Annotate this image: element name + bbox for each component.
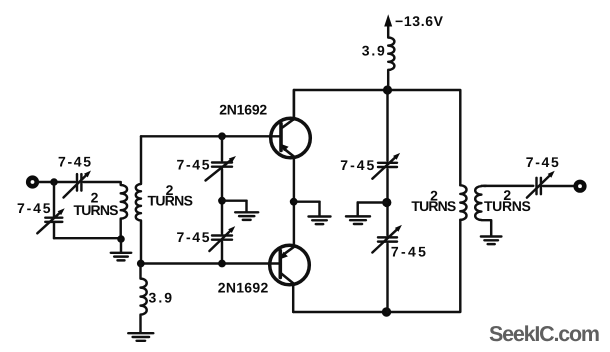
- input terminal J1: [26, 175, 39, 188]
- ground G5 tank: [346, 203, 387, 225]
- capacitor C5 7-45 plates: [378, 163, 397, 167]
- svg-text:7-45: 7-45: [340, 157, 374, 173]
- power arrow -13.6V: [384, 14, 392, 37]
- node top bias junction: [218, 132, 226, 140]
- node bottom rail junction: [382, 307, 391, 316]
- inductor L4 2 TURNS secondary: [475, 186, 491, 236]
- svg-text:2N1692: 2N1692: [219, 102, 267, 118]
- svg-text:TURNS: TURNS: [74, 202, 119, 218]
- wire cap to output terminal: [543, 185, 574, 187]
- node L1 bottom junction: [117, 235, 125, 243]
- capacitor C2 arrow: [37, 208, 64, 233]
- inductor L3 2 TURNS primary: [460, 185, 466, 220]
- node mid bias junction: [218, 197, 226, 205]
- ground G3 emitters: [294, 202, 331, 224]
- capacitor C4 arrow: [209, 226, 235, 251]
- wire Q2 collector down: [292, 284, 294, 313]
- svg-text:TURNS: TURNS: [147, 192, 193, 208]
- svg-text:7-45: 7-45: [526, 154, 559, 170]
- wire bottom bias line: [141, 262, 281, 264]
- capacitor C4 7-45 plates: [212, 236, 232, 240]
- node bias bottom junction: [218, 260, 226, 268]
- svg-text:7-45: 7-45: [17, 200, 51, 216]
- inductor L1 2 TURNS left loop: [121, 182, 127, 239]
- capacitor C2 7-45 shunt plates: [45, 218, 62, 222]
- wire left shunt vertical: [53, 182, 55, 217]
- capacitor C6 7-45 plates: [378, 237, 397, 241]
- capacitor C1 7-45 series plates: [77, 174, 81, 191]
- svg-text:TURNS: TURNS: [411, 198, 456, 214]
- wire top bias line: [141, 135, 281, 137]
- wire input to C1: [38, 181, 75, 183]
- wire top rail: [294, 90, 460, 185]
- wire Q1 emitter down: [293, 157, 295, 246]
- capacitor C7 7-45 plates: [537, 178, 541, 194]
- ground G6 output: [481, 237, 502, 245]
- wire bias caps column: [221, 136, 223, 160]
- wire left loop bottom: [54, 237, 121, 239]
- node tank mid junction: [382, 198, 391, 207]
- wire bottom rail: [293, 220, 460, 312]
- output terminal J2: [573, 180, 586, 193]
- inductor L2 2 TURNS middle: [136, 136, 141, 263]
- node emitters junction: [290, 198, 298, 206]
- inductor L6 3.9 top: [388, 38, 394, 91]
- svg-text:3.9: 3.9: [362, 42, 385, 58]
- svg-text:−13.6V: −13.6V: [395, 13, 444, 29]
- capacitor C6 arrow: [372, 225, 402, 253]
- svg-text:7-45: 7-45: [391, 243, 426, 259]
- capacitor C7 arrow: [527, 171, 555, 198]
- node junction input: [50, 178, 58, 186]
- ground G1 left loop: [111, 239, 131, 260]
- node L2 bottom junction: [137, 260, 145, 268]
- svg-text:7-45: 7-45: [58, 154, 91, 170]
- svg-text:TURNS: TURNS: [484, 198, 531, 214]
- svg-text:2N1692: 2N1692: [218, 279, 269, 295]
- wire tank caps column: [386, 90, 388, 161]
- capacitor C1 arrow: [64, 171, 92, 198]
- ground G2 bias: [222, 201, 258, 220]
- svg-text:SeekIC.com: SeekIC.com: [489, 322, 600, 346]
- capacitor C3 arrow: [206, 156, 237, 181]
- transistor Q2 2N1692 bottom: [270, 245, 310, 285]
- wire output line: [484, 185, 533, 187]
- capacitor C3 7-45 plates: [212, 163, 232, 167]
- wire Q1 collector up: [293, 90, 295, 120]
- inductor L5 3.9 bottom: [141, 264, 147, 333]
- wire C1 to corner: [84, 181, 120, 183]
- svg-text:7-45: 7-45: [177, 229, 210, 245]
- capacitor C5 arrow: [372, 153, 400, 179]
- svg-text:7-45: 7-45: [177, 156, 210, 172]
- transistor Q1 2N1692 top: [271, 118, 311, 158]
- svg-text:3.9: 3.9: [149, 290, 173, 306]
- node supply junction: [383, 85, 392, 94]
- ground G4 bottom: [128, 333, 153, 341]
